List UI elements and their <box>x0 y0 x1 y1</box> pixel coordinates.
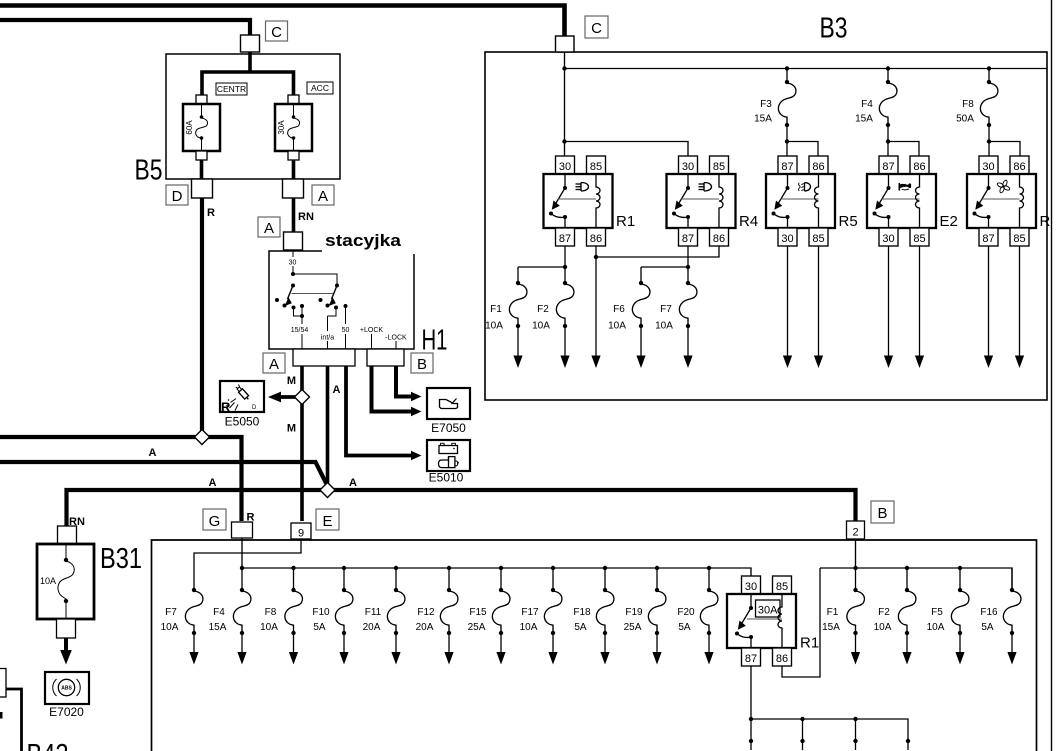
svg-text:F8: F8 <box>962 99 974 110</box>
svg-text:F16: F16 <box>980 607 998 618</box>
arrow B31 to E7020 <box>60 638 72 665</box>
terminal int/a <box>321 316 334 349</box>
wire trunk upper <box>0 437 242 521</box>
label CENTR <box>216 83 247 95</box>
svg-text:F19: F19 <box>625 607 643 618</box>
fuse F4 15A <box>209 566 251 665</box>
svg-text:R1: R1 <box>616 213 635 230</box>
svg-text:10A: 10A <box>927 622 945 633</box>
svg-text:5A: 5A <box>574 622 587 633</box>
svg-text:F1: F1 <box>827 607 839 618</box>
junction diamond R <box>195 430 210 445</box>
svg-text:87: 87 <box>682 233 694 245</box>
svg-text:G: G <box>209 513 221 530</box>
svg-text:15A: 15A <box>754 114 772 125</box>
svg-text:F8: F8 <box>265 607 277 618</box>
svg-text:F7: F7 <box>660 304 672 315</box>
fuse F16 5A <box>980 568 1021 665</box>
svg-text:10A: 10A <box>532 321 550 332</box>
box B3 <box>485 52 1047 400</box>
svg-text:F18: F18 <box>573 607 591 618</box>
wires out R fan <box>984 246 1024 368</box>
svg-text:CENTR: CENTR <box>217 84 246 94</box>
label E7050 <box>431 421 466 435</box>
svg-text:5A: 5A <box>981 622 994 633</box>
wire CENTR to D <box>200 160 204 179</box>
label wire M lower <box>287 423 296 435</box>
wire C down B3 <box>564 52 566 142</box>
svg-text:30: 30 <box>559 161 571 173</box>
svg-text:RN: RN <box>298 211 314 223</box>
svg-text:B31: B31 <box>100 543 142 575</box>
label A <box>312 185 334 205</box>
svg-text:H1: H1 <box>422 325 448 357</box>
label A below strip <box>263 353 285 373</box>
label B31 <box>100 543 142 575</box>
label B lower <box>871 501 894 523</box>
svg-text:R: R <box>221 400 231 415</box>
wires out E2 <box>884 246 924 368</box>
svg-text:85: 85 <box>812 233 824 245</box>
svg-text:F12: F12 <box>417 607 435 618</box>
label C <box>266 21 288 41</box>
svg-text:B: B <box>417 356 427 373</box>
label wire A left <box>209 477 217 489</box>
terminal 50 <box>342 327 350 349</box>
svg-text:A: A <box>318 188 328 205</box>
wire ACC to A <box>292 160 296 179</box>
svg-text:86: 86 <box>590 233 602 245</box>
svg-text:87: 87 <box>745 653 757 665</box>
svg-text:86: 86 <box>713 233 725 245</box>
label G <box>203 509 226 530</box>
svg-text:30: 30 <box>682 161 694 173</box>
svg-text:25A: 25A <box>468 622 486 633</box>
svg-text:A: A <box>209 477 217 489</box>
box B5 <box>166 54 340 179</box>
fuse F8 50A <box>956 66 1020 156</box>
label wire A right <box>349 477 357 489</box>
connector A on B5 <box>283 179 304 198</box>
svg-text:30: 30 <box>982 161 994 173</box>
svg-text:87: 87 <box>781 161 793 173</box>
fuse F4 15A <box>855 66 919 156</box>
svg-text:50A: 50A <box>956 114 974 125</box>
fuse F1 15A <box>822 566 864 665</box>
svg-text:85: 85 <box>1013 233 1025 245</box>
node 30 feed R1 R4 <box>562 139 688 156</box>
svg-text:F7: F7 <box>165 607 177 618</box>
svg-text:E2: E2 <box>940 213 958 230</box>
svg-text:E5050: E5050 <box>225 415 260 429</box>
svg-text:F20: F20 <box>677 607 695 618</box>
wire M 15/54 down <box>300 366 304 521</box>
svg-text:30: 30 <box>882 233 894 245</box>
svg-text:B42: B42 <box>27 739 69 751</box>
svg-text:F1: F1 <box>490 304 502 315</box>
connector 9 <box>291 523 311 540</box>
node 87 R4 to F6 F7 <box>641 246 690 283</box>
svg-text:M: M <box>287 423 296 435</box>
fuse F2 10A <box>532 281 574 368</box>
fuse F6 10A <box>608 281 650 368</box>
connector 2 <box>847 521 865 539</box>
label wire R <box>207 207 215 219</box>
box E7020 ABS <box>45 672 89 704</box>
relay E2 <box>867 156 958 246</box>
box fuse panel <box>152 540 1037 751</box>
svg-text:F5: F5 <box>931 607 943 618</box>
junction diamond M <box>295 390 310 405</box>
svg-text:87: 87 <box>882 161 894 173</box>
fuse F18 5A <box>573 566 614 665</box>
svg-text:F3: F3 <box>760 99 772 110</box>
svg-text:ACC: ACC <box>311 83 329 93</box>
svg-text:R: R <box>1040 213 1051 230</box>
svg-text:A: A <box>264 220 274 237</box>
wire trunk lower <box>67 490 856 526</box>
svg-text:stacyjka: stacyjka <box>325 231 402 250</box>
terminal 15/54 <box>291 316 309 349</box>
wire 9 to F7 <box>194 539 301 588</box>
label E5010 <box>429 471 464 485</box>
svg-text:15/54: 15/54 <box>291 327 309 334</box>
svg-text:B: B <box>877 505 887 522</box>
svg-text:10A: 10A <box>485 321 503 332</box>
svg-text:R: R <box>207 207 215 219</box>
wire 50 to E5010 <box>346 366 422 460</box>
connector G <box>232 522 253 538</box>
label B5 <box>135 155 163 187</box>
fuse F7 10A <box>161 588 203 665</box>
ignition switch contacts <box>275 272 348 324</box>
fuse F1 10A <box>485 281 527 368</box>
relay R4 <box>667 156 759 246</box>
svg-text:15A: 15A <box>855 114 873 125</box>
svg-text:2: 2 <box>852 527 858 539</box>
box B42 corner <box>0 689 22 751</box>
svg-text:10A: 10A <box>655 321 673 332</box>
wire battery feed to B5 <box>0 20 250 35</box>
svg-text:85: 85 <box>776 581 788 593</box>
svg-text:-LOCK: -LOCK <box>385 335 407 342</box>
svg-text:85: 85 <box>913 233 925 245</box>
fuse B31 10A <box>37 544 94 619</box>
fuse F10 5A <box>312 566 353 665</box>
label H1 <box>422 325 448 357</box>
svg-text:10A: 10A <box>40 576 56 586</box>
relay R1 <box>544 156 636 246</box>
svg-text:86: 86 <box>913 161 925 173</box>
wire 86 to bus right <box>782 568 820 677</box>
svg-text:20A: 20A <box>416 622 434 633</box>
box E5010 starter <box>427 440 470 471</box>
label A above stacyjka <box>258 217 280 237</box>
svg-text:50: 50 <box>342 327 350 334</box>
label wire RN left <box>69 516 85 528</box>
svg-text:E7020: E7020 <box>49 705 84 719</box>
fuse F11 20A <box>363 566 405 665</box>
connector B31 bottom <box>57 619 76 638</box>
connector B42 <box>0 669 6 698</box>
connector D on B5 <box>192 179 213 198</box>
connector C on B3 <box>556 36 575 52</box>
svg-text:85: 85 <box>590 161 602 173</box>
fuse F7 10A <box>655 281 697 368</box>
svg-text:10A: 10A <box>874 622 892 633</box>
connector strip B <box>367 349 404 366</box>
arrow to E5050 <box>268 392 308 403</box>
svg-text:30A: 30A <box>758 605 778 617</box>
svg-text:F4: F4 <box>861 99 873 110</box>
relay R1 30A <box>727 576 819 666</box>
wire trunk middle <box>0 462 328 486</box>
fuse F2 10A <box>874 566 916 665</box>
wire B3 bus <box>562 66 1047 70</box>
svg-text:F15: F15 <box>469 607 487 618</box>
svg-text:30: 30 <box>289 260 297 267</box>
label D <box>166 185 188 205</box>
wire battery feed to B3 <box>0 6 565 37</box>
terminal +LOCK <box>360 327 383 349</box>
fuse F3 15A <box>754 66 818 156</box>
label E7020 <box>49 705 84 719</box>
terminal -LOCK <box>385 335 407 350</box>
svg-text:C: C <box>591 20 602 37</box>
label E <box>316 509 339 530</box>
svg-text:30: 30 <box>745 581 757 593</box>
svg-text:A: A <box>149 447 157 459</box>
fuse F12 20A <box>416 566 458 665</box>
wire lower bus <box>749 717 910 750</box>
fuse F15 25A <box>468 566 510 665</box>
label wire A int/a <box>333 384 341 396</box>
svg-text:30A: 30A <box>277 120 286 135</box>
svg-text:E7050: E7050 <box>431 421 466 435</box>
label B3 <box>820 13 848 45</box>
svg-text:60A: 60A <box>185 120 194 135</box>
label wire M <box>287 375 296 387</box>
svg-text:20A: 20A <box>363 622 381 633</box>
svg-text:10A: 10A <box>608 321 626 332</box>
wire G to bus <box>241 538 243 568</box>
svg-text:10A: 10A <box>260 622 278 633</box>
svg-text:F4: F4 <box>213 607 225 618</box>
svg-text:10A: 10A <box>161 622 179 633</box>
svg-text:15A: 15A <box>209 622 227 633</box>
page border right <box>1051 0 1053 751</box>
svg-text:87: 87 <box>982 233 994 245</box>
svg-text:M: M <box>287 375 296 387</box>
connector on ignition switch <box>284 232 303 250</box>
svg-text:9: 9 <box>298 528 304 540</box>
relay R fan <box>967 156 1036 246</box>
connector C on B5 <box>241 35 260 52</box>
svg-text:R4: R4 <box>739 213 758 230</box>
svg-text:D: D <box>172 188 183 205</box>
svg-text:F2: F2 <box>878 607 890 618</box>
svg-text:+LOCK: +LOCK <box>360 327 383 334</box>
svg-text:15A: 15A <box>822 622 840 633</box>
label C right <box>585 16 608 38</box>
label B below strip <box>411 353 433 373</box>
svg-text:F6: F6 <box>613 304 625 315</box>
svg-text:A: A <box>269 356 279 373</box>
svg-text:R5: R5 <box>839 213 858 230</box>
svg-text:E: E <box>322 513 332 530</box>
fuse F19 25A <box>624 566 666 665</box>
svg-text:10A: 10A <box>520 622 538 633</box>
svg-text:D: D <box>252 405 257 411</box>
label wire RN <box>298 211 314 223</box>
wire 86 R1 R4 <box>591 246 719 368</box>
box E5050 spark plugs <box>220 381 264 415</box>
connector strip A <box>293 349 355 366</box>
wire -LOCK to E7050 <box>396 366 422 401</box>
connector B31 top <box>58 526 77 544</box>
box E7050 bonnet switch <box>427 388 470 419</box>
svg-text:30: 30 <box>781 233 793 245</box>
svg-text:R1: R1 <box>800 635 819 652</box>
label B42 <box>27 739 69 751</box>
wire +LOCK to E7050 <box>372 366 422 416</box>
svg-text:B5: B5 <box>135 155 163 187</box>
svg-text:86: 86 <box>1013 161 1025 173</box>
junction diamond A <box>320 483 335 498</box>
svg-text:F10: F10 <box>312 607 330 618</box>
svg-text:ABS: ABS <box>61 686 72 692</box>
label fragment left edge <box>0 712 3 719</box>
wire C to B5 split <box>202 52 294 96</box>
fuse F5 10A <box>927 566 969 665</box>
svg-text:F2: F2 <box>537 304 549 315</box>
fuse F20 5A <box>677 566 718 665</box>
fuse CENTR 60A <box>183 95 220 160</box>
wire bus right <box>820 568 1012 590</box>
label E5050 <box>225 415 260 429</box>
svg-text:5A: 5A <box>678 622 691 633</box>
pin 30 ignition <box>289 251 297 274</box>
fuse ACC 30A <box>275 95 312 160</box>
fuse F17 10A <box>520 566 562 665</box>
label stacyjka <box>325 231 402 250</box>
fuse F8 10A <box>260 566 302 665</box>
wire 2 down <box>855 539 857 568</box>
label wire A mid <box>149 447 157 459</box>
svg-text:F11: F11 <box>365 607 382 618</box>
svg-text:int/a: int/a <box>321 335 334 342</box>
svg-text:86: 86 <box>776 653 788 665</box>
wire RN to stacyjka <box>292 198 296 233</box>
svg-text:F17: F17 <box>521 607 539 618</box>
wires out R5 <box>783 246 823 368</box>
svg-text:B3: B3 <box>820 13 848 45</box>
label ACC <box>307 82 333 94</box>
node 87 R1 to F1 F2 <box>518 246 567 283</box>
svg-text:E5010: E5010 <box>429 471 464 485</box>
svg-text:5A: 5A <box>313 622 326 633</box>
wire A int/a down <box>326 366 330 487</box>
wire bus left <box>242 568 751 576</box>
svg-text:A: A <box>333 384 341 396</box>
wire 87 down <box>750 666 752 719</box>
svg-text:25A: 25A <box>624 622 642 633</box>
label wire R lower <box>247 512 255 524</box>
svg-text:86: 86 <box>812 161 824 173</box>
svg-text:C: C <box>271 24 282 41</box>
svg-text:A: A <box>349 477 357 489</box>
svg-text:87: 87 <box>559 233 571 245</box>
svg-text:85: 85 <box>713 161 725 173</box>
relay R5 <box>766 156 858 246</box>
wire D down <box>200 198 204 437</box>
box H1 ignition switch <box>269 251 414 349</box>
